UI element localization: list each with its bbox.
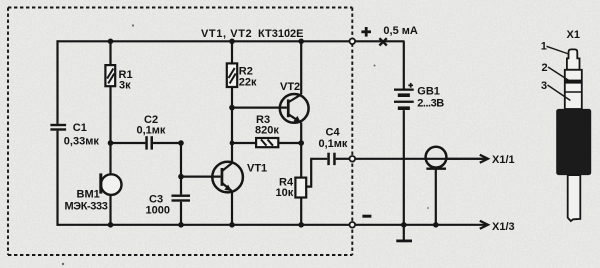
svg-text:X1/1: X1/1 (492, 154, 515, 166)
svg-text:VT1: VT1 (247, 163, 267, 175)
svg-text:0,1мк: 0,1мк (319, 138, 348, 150)
svg-text:VT2: VT2 (280, 81, 300, 93)
svg-text:МЭК-333: МЭК-333 (65, 201, 108, 213)
svg-text:2...3В: 2...3В (417, 98, 444, 110)
svg-text:0,1мк: 0,1мк (137, 125, 166, 137)
svg-text:GB1: GB1 (417, 86, 440, 98)
svg-text:0,33мк: 0,33мк (64, 136, 100, 148)
svg-text:X1/3: X1/3 (492, 221, 515, 233)
svg-text:0,5 мА: 0,5 мА (383, 25, 417, 37)
svg-text:С4: С4 (326, 127, 341, 139)
svg-text:820к: 820к (255, 125, 279, 137)
svg-text:VT1, VT2: VT1, VT2 (201, 28, 252, 40)
svg-text:3к: 3к (119, 80, 131, 92)
svg-text:X1: X1 (567, 29, 580, 41)
svg-text:1: 1 (541, 41, 547, 53)
svg-text:ВМ1: ВМ1 (77, 189, 100, 201)
svg-text:10к: 10к (276, 187, 294, 199)
svg-text:КТ3102Е: КТ3102Е (258, 28, 304, 40)
svg-text:22к: 22к (239, 77, 257, 89)
svg-text:С1: С1 (73, 122, 87, 134)
svg-text:1000: 1000 (146, 205, 170, 217)
svg-text:3: 3 (541, 80, 547, 92)
svg-text:2: 2 (542, 62, 548, 74)
